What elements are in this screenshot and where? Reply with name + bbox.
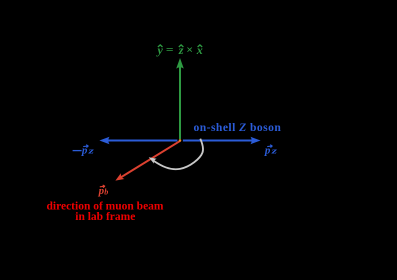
node label on-shell Z boson: [194, 121, 282, 134]
node origin dot (orange): [179, 139, 182, 142]
node label -pz (left): [81, 145, 95, 157]
minus sign of left label: [73, 150, 82, 152]
red arrowhead: [115, 173, 124, 180]
wire z-axis left segment (blue): [104, 140, 178, 142]
hat over z: [179, 45, 184, 47]
vec arrow over pb: [100, 185, 105, 188]
vec arrow over right p: [267, 145, 272, 148]
svg-text:in lab frame: in lab frame: [75, 211, 135, 223]
vec arrow over left p: [83, 145, 88, 148]
wire y-axis (green): [179, 66, 181, 140]
wire z-axis right segment (blue): [183, 140, 257, 142]
right arrowhead: [251, 137, 261, 144]
svg-text:on-shell Z boson: on-shell Z boson: [194, 121, 282, 134]
wire angle arc (gray): [154, 139, 204, 170]
arc arrowhead: [149, 157, 157, 163]
svg-text:b: b: [104, 188, 108, 197]
hat over y: [158, 45, 163, 47]
left arrowhead: [99, 137, 109, 144]
node y-axis label: [156, 43, 203, 57]
y-axis arrowhead: [176, 58, 184, 69]
node label pz (right): [264, 145, 278, 157]
svg-text:×: ×: [186, 43, 193, 57]
wire muon-beam arrow (red): [120, 141, 181, 178]
svg-text:=: =: [166, 44, 174, 56]
node label pb (red): [98, 185, 109, 197]
hat over x: [198, 45, 203, 47]
